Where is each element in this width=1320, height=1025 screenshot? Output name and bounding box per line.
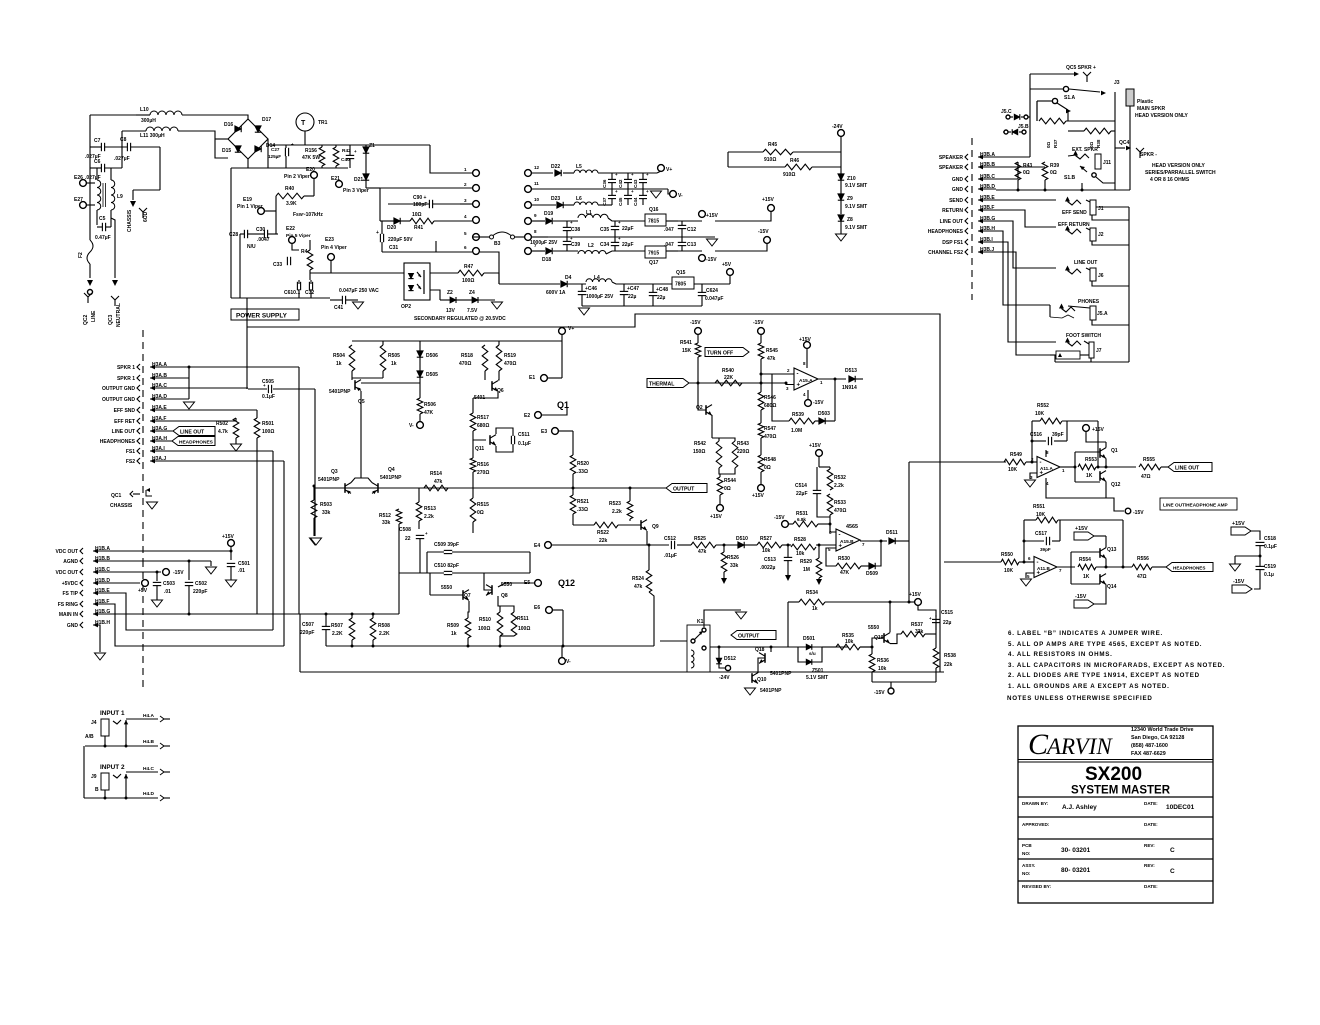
svg-text:1K: 1K: [1083, 574, 1090, 580]
svg-text:1k: 1k: [812, 606, 818, 612]
svg-text:C502: C502: [195, 581, 207, 587]
svg-text:ASSY.: ASSY.: [1022, 863, 1035, 868]
svg-text:100Ω: 100Ω: [518, 626, 530, 632]
svg-text:-15V: -15V: [753, 320, 764, 326]
svg-text:R543: R543: [737, 441, 749, 447]
svg-text:E20: E20: [306, 167, 315, 173]
svg-text:E3: E3: [541, 429, 547, 435]
svg-text:R519: R519: [504, 353, 516, 359]
svg-text:2.2k: 2.2k: [834, 483, 844, 489]
svg-text:22µF: 22µF: [796, 491, 808, 497]
svg-text:E23: E23: [325, 237, 334, 243]
svg-text:.0022µ: .0022µ: [760, 565, 776, 571]
svg-text:6OD: 6OD: [143, 211, 149, 222]
svg-text:NO:: NO:: [1022, 871, 1031, 876]
svg-text:R550: R550: [1001, 552, 1013, 558]
svg-text:+: +: [646, 189, 649, 194]
svg-text:C514: C514: [795, 483, 807, 489]
svg-text:Z4: Z4: [469, 290, 475, 296]
svg-text:FS TIP: FS TIP: [62, 591, 78, 597]
svg-text:THERMAL: THERMAL: [649, 381, 675, 387]
svg-text:1k: 1k: [336, 361, 342, 367]
svg-text:.33Ω: .33Ω: [577, 507, 588, 513]
svg-text:SPEAKER: SPEAKER: [939, 155, 964, 161]
svg-text:+5V: +5V: [722, 262, 732, 268]
svg-text:A11.B: A11.B: [1037, 566, 1050, 571]
svg-text:.01: .01: [238, 568, 245, 574]
svg-text:J5.C: J5.C: [1001, 109, 1012, 115]
svg-text:R539: R539: [792, 412, 804, 418]
svg-text:J11: J11: [1103, 160, 1111, 166]
svg-text:-15V: -15V: [690, 320, 701, 326]
svg-text:D510: D510: [736, 536, 748, 542]
svg-text:R548: R548: [764, 457, 776, 463]
svg-text:22k: 22k: [599, 538, 608, 544]
svg-text:12340 World Trade Drive: 12340 World Trade Drive: [1131, 727, 1194, 733]
svg-text:C513: C513: [764, 557, 776, 563]
svg-text:220pF: 220pF: [193, 589, 207, 595]
svg-text:A11.A: A11.A: [1040, 466, 1053, 471]
svg-text:D20: D20: [387, 225, 396, 231]
svg-text:D506: D506: [426, 353, 438, 359]
svg-text:Q12: Q12: [1111, 482, 1121, 488]
svg-text:C511: C511: [518, 432, 530, 438]
svg-text:0Ω: 0Ω: [1023, 170, 1030, 176]
svg-text:C: C: [1170, 868, 1175, 875]
svg-text:C34: C34: [600, 242, 609, 248]
svg-text:680Ω: 680Ω: [477, 423, 489, 429]
svg-text:C516: C516: [1030, 432, 1042, 438]
svg-text:+5V: +5V: [138, 588, 148, 594]
svg-text:R555: R555: [1143, 457, 1155, 463]
svg-text:H4.B: H4.B: [143, 739, 154, 745]
svg-text:+: +: [631, 189, 634, 194]
svg-text:Z1: Z1: [369, 143, 375, 149]
svg-text:R528: R528: [794, 537, 806, 543]
svg-text:-15V: -15V: [706, 257, 717, 263]
svg-text:R513: R513: [424, 506, 436, 512]
svg-text:+15V: +15V: [1075, 526, 1088, 532]
svg-text:CHANNEL FS2: CHANNEL FS2: [928, 250, 963, 256]
svg-text:E4: E4: [534, 543, 540, 549]
svg-text:SPEAKER: SPEAKER: [939, 165, 964, 171]
svg-text:J4: J4: [91, 720, 97, 726]
svg-text:+: +: [615, 189, 618, 194]
svg-text:C39: C39: [571, 242, 580, 248]
svg-text:8: 8: [534, 229, 537, 234]
svg-text:Q9: Q9: [652, 524, 659, 530]
svg-text:D503: D503: [818, 411, 830, 417]
svg-text:+15V: +15V: [752, 493, 764, 499]
svg-text:PCB: PCB: [1022, 843, 1032, 848]
svg-text:F2: F2: [78, 252, 84, 258]
svg-text:HEAD VERSION ONLY: HEAD VERSION ONLY: [1152, 163, 1206, 169]
svg-text:PHONES: PHONES: [1078, 299, 1100, 305]
svg-text:R518: R518: [461, 353, 473, 359]
svg-text:5401PNP: 5401PNP: [318, 477, 340, 483]
svg-text:Q3: Q3: [331, 469, 338, 475]
svg-text:C12: C12: [687, 227, 696, 233]
svg-text:R537: R537: [911, 622, 923, 628]
svg-text:C32: C32: [305, 290, 314, 296]
svg-text:22µF: 22µF: [622, 226, 634, 232]
svg-text:R534: R534: [806, 590, 818, 596]
svg-text:R523: R523: [609, 501, 621, 507]
svg-text:39pF: 39pF: [1040, 547, 1051, 552]
svg-text:0.1µF: 0.1µF: [1264, 544, 1277, 550]
svg-text:QC5 SPKR +: QC5 SPKR +: [1066, 65, 1096, 71]
svg-text:6. LABEL “B” INDICATES A JUMP: 6. LABEL “B” INDICATES A JUMPER WIRE.: [1008, 630, 1163, 637]
svg-text:1: 1: [464, 167, 467, 172]
svg-text:C40: C40: [341, 157, 350, 163]
svg-text:Q2: Q2: [696, 405, 703, 411]
svg-text:6: 6: [464, 245, 467, 250]
svg-text:L6: L6: [576, 196, 582, 202]
svg-text:47k: 47k: [634, 584, 643, 590]
svg-text:R547: R547: [764, 426, 776, 432]
svg-text:+: +: [570, 236, 573, 241]
svg-text:DRAWN BY:: DRAWN BY:: [1022, 801, 1049, 806]
svg-text:.01: .01: [164, 589, 171, 595]
svg-text:SPKR -: SPKR -: [1140, 152, 1157, 158]
svg-text:680Ω: 680Ω: [764, 403, 776, 409]
svg-text:R532: R532: [834, 475, 846, 481]
svg-text:-15V: -15V: [1233, 579, 1245, 585]
svg-text:C510 82pF: C510 82pF: [434, 563, 459, 569]
svg-text:R538: R538: [944, 653, 956, 659]
svg-text:R41: R41: [414, 225, 423, 231]
svg-text:+15V: +15V: [706, 213, 718, 219]
svg-text:R509: R509: [447, 623, 459, 629]
svg-text:QC2: QC2: [83, 315, 89, 326]
svg-text:Q4: Q4: [388, 467, 395, 473]
svg-text:R540: R540: [722, 368, 734, 374]
svg-text:+: +: [263, 383, 266, 388]
svg-text:R542: R542: [694, 441, 706, 447]
svg-text:HEADPHONES: HEADPHONES: [1173, 565, 1205, 570]
svg-text:.047: .047: [664, 227, 674, 233]
svg-text:-15V: -15V: [1133, 510, 1144, 516]
svg-text:R536: R536: [877, 658, 889, 664]
svg-text:+: +: [354, 149, 357, 154]
svg-text:J5.B: J5.B: [1018, 124, 1029, 130]
svg-text:5401PNP: 5401PNP: [760, 688, 782, 694]
svg-text:10DEC01: 10DEC01: [1166, 804, 1195, 811]
svg-text:L1: L1: [586, 210, 592, 216]
svg-text:47k: 47k: [767, 356, 776, 362]
svg-text:Pin 5 Viper: Pin 5 Viper: [286, 233, 311, 239]
svg-text:5. ALL OP AMPS ARE TYPE 4565,: 5. ALL OP AMPS ARE TYPE 4565, EXCEPT AS …: [1008, 641, 1202, 648]
svg-text:5.1V SMT: 5.1V SMT: [806, 675, 828, 681]
svg-text:D15: D15: [222, 148, 231, 154]
svg-text:R504: R504: [333, 353, 345, 359]
svg-text:+: +: [425, 531, 428, 536]
svg-text:R46: R46: [790, 158, 799, 164]
svg-text:L10: L10: [140, 107, 149, 113]
svg-text:REVISED BY:: REVISED BY:: [1022, 884, 1051, 889]
svg-text:100Ω: 100Ω: [478, 626, 490, 632]
svg-text:R530: R530: [838, 556, 850, 562]
svg-text:0Ω: 0Ω: [724, 486, 731, 492]
svg-text:0.1µF: 0.1µF: [518, 441, 531, 447]
svg-text:R515: R515: [477, 502, 489, 508]
svg-text:R37: R37: [1053, 139, 1058, 148]
svg-text:+15V: +15V: [799, 337, 811, 343]
svg-text:OUTPUT: OUTPUT: [738, 633, 760, 639]
svg-text:39pF: 39pF: [1052, 432, 1064, 438]
svg-text:C8: C8: [120, 137, 127, 143]
svg-text:D19: D19: [544, 211, 553, 217]
svg-text:C: C: [1170, 847, 1175, 854]
svg-text:J3: J3: [1114, 80, 1120, 86]
svg-text:INPUT 1: INPUT 1: [100, 710, 125, 717]
svg-text:B: B: [95, 787, 99, 793]
svg-text:0.1µF: 0.1µF: [262, 394, 275, 400]
svg-text:D23: D23: [551, 196, 560, 202]
svg-text:VDC OUT: VDC OUT: [56, 570, 79, 576]
svg-text:R554: R554: [1079, 557, 1091, 563]
svg-text:LINE OUT: LINE OUT: [1074, 260, 1097, 266]
svg-text:D21: D21: [354, 177, 363, 183]
svg-text:C610.1: C610.1: [284, 290, 300, 296]
svg-text:TR1: TR1: [318, 120, 328, 126]
svg-text:C503: C503: [163, 581, 175, 587]
svg-text:-: -: [839, 533, 841, 539]
svg-text:D505: D505: [426, 372, 438, 378]
svg-text:H4.C: H4.C: [143, 766, 154, 772]
svg-text:TURN OFF: TURN OFF: [707, 350, 733, 356]
svg-text:R501: R501: [262, 421, 274, 427]
svg-text:D22: D22: [551, 164, 560, 170]
svg-text:5550: 5550: [868, 625, 879, 631]
svg-text:47k: 47k: [434, 479, 443, 485]
svg-text:C27: C27: [271, 147, 280, 152]
svg-text:(858) 487-1600: (858) 487-1600: [1131, 743, 1168, 749]
svg-text:22: 22: [405, 536, 411, 542]
svg-text:C33: C33: [273, 262, 282, 268]
svg-text:47K 5W: 47K 5W: [302, 155, 320, 161]
svg-text:QC1: QC1: [111, 493, 122, 499]
svg-text:V-: V-: [678, 193, 683, 199]
svg-text:C13: C13: [687, 242, 696, 248]
svg-text:Q10: Q10: [757, 677, 767, 683]
svg-text:600V 1A: 600V 1A: [546, 290, 566, 296]
svg-text:-15V: -15V: [774, 515, 785, 521]
svg-text:D17: D17: [262, 117, 271, 123]
svg-text:7805: 7805: [675, 282, 686, 288]
svg-text:LINE OUT: LINE OUT: [180, 429, 205, 435]
svg-text:2: 2: [464, 182, 467, 187]
svg-text:S1.A: S1.A: [1064, 95, 1076, 101]
svg-text:San Diego, CA 92128: San Diego, CA 92128: [1131, 735, 1184, 741]
svg-text:E26: E26: [74, 175, 83, 181]
svg-text:E2: E2: [524, 413, 530, 419]
svg-text:MAIN SPKR: MAIN SPKR: [1137, 106, 1165, 112]
svg-text:L5: L5: [576, 164, 582, 170]
svg-text:C518: C518: [1264, 536, 1276, 542]
svg-text:0.047µF: 0.047µF: [705, 296, 723, 302]
svg-text:C515: C515: [941, 610, 953, 616]
svg-text:A/B: A/B: [85, 734, 94, 740]
svg-text:R549: R549: [1010, 452, 1022, 458]
svg-text:Q7: Q7: [464, 593, 471, 599]
svg-text:SERIES/PARRALLEL SWITCH: SERIES/PARRALLEL SWITCH: [1145, 170, 1216, 176]
svg-text:C: C: [1028, 728, 1049, 761]
svg-text:Plastic: Plastic: [1137, 99, 1153, 105]
svg-text:12: 12: [534, 165, 540, 170]
svg-text:R524: R524: [632, 576, 644, 582]
svg-text:0.047µF 250 VAC: 0.047µF 250 VAC: [339, 288, 379, 294]
svg-text:33k: 33k: [382, 520, 391, 526]
svg-text:R511: R511: [517, 616, 529, 622]
svg-text:E22: E22: [286, 226, 295, 232]
svg-text:R40: R40: [285, 186, 294, 192]
svg-text:OP2: OP2: [401, 304, 411, 310]
svg-text:J2: J2: [1098, 232, 1104, 238]
svg-text:J7: J7: [1096, 348, 1102, 354]
svg-text:C6: C6: [94, 159, 101, 165]
svg-text:SX200: SX200: [1085, 764, 1142, 785]
svg-text:R43: R43: [1023, 163, 1032, 169]
svg-text:+5VDC: +5VDC: [62, 581, 79, 587]
svg-text:A15.B: A15.B: [840, 539, 854, 545]
svg-text:33k: 33k: [915, 629, 924, 635]
svg-text:470Ω: 470Ω: [504, 361, 516, 367]
svg-text:NO:: NO:: [1022, 851, 1031, 856]
svg-text:R553: R553: [1085, 457, 1097, 463]
svg-text:RETURN: RETURN: [942, 208, 963, 214]
svg-text:R502: R502: [216, 421, 228, 427]
svg-text:Q1: Q1: [1111, 448, 1118, 454]
svg-text:S1.B: S1.B: [1064, 175, 1076, 181]
svg-text:-24V: -24V: [832, 124, 843, 130]
svg-text:1M: 1M: [803, 567, 810, 573]
svg-text:Pin 2 Viper: Pin 2 Viper: [284, 174, 310, 180]
svg-text:J9: J9: [91, 774, 97, 780]
svg-text:V-: V-: [566, 659, 571, 665]
svg-text:R541: R541: [680, 340, 692, 346]
svg-text:.0047: .0047: [257, 237, 270, 243]
svg-text:DSP FS1: DSP FS1: [942, 240, 963, 246]
svg-text:-15V: -15V: [173, 570, 184, 576]
svg-text:L11 300µH: L11 300µH: [140, 133, 165, 139]
svg-text:R551: R551: [1033, 504, 1045, 510]
svg-text:R521: R521: [577, 499, 589, 505]
svg-text:A15.A: A15.A: [799, 378, 813, 384]
svg-text:C36: C36: [602, 179, 607, 188]
svg-text:GND: GND: [952, 177, 964, 183]
svg-text:R506: R506: [424, 402, 436, 408]
svg-text:R505: R505: [388, 353, 400, 359]
svg-text:+: +: [1040, 470, 1044, 476]
svg-text:REV:: REV:: [1144, 843, 1155, 848]
svg-text:L2: L2: [588, 243, 594, 249]
svg-text:V-: V-: [409, 423, 414, 429]
svg-text:C512: C512: [664, 536, 676, 542]
svg-text:A.J. Ashley: A.J. Ashley: [1062, 804, 1097, 811]
svg-text:47Ω: 47Ω: [1137, 574, 1147, 580]
svg-text:+15V: +15V: [809, 443, 821, 449]
svg-text:AGND: AGND: [63, 559, 78, 565]
svg-text:CHASSIS: CHASSIS: [110, 503, 133, 509]
svg-text:220Ω: 220Ω: [737, 449, 749, 455]
svg-text:NOTES UNLESS OTHERWISE SPECIFI: NOTES UNLESS OTHERWISE SPECIFIED: [1007, 695, 1153, 702]
svg-text:470Ω: 470Ω: [764, 434, 776, 440]
svg-text:D513: D513: [845, 368, 857, 374]
svg-text:LINE OUT: LINE OUT: [112, 429, 135, 435]
svg-text:SPKR 1: SPKR 1: [117, 376, 135, 382]
svg-text:D511: D511: [886, 530, 898, 536]
svg-text:30- 03201: 30- 03201: [1061, 847, 1091, 854]
svg-text:LINE OUT: LINE OUT: [1175, 465, 1200, 471]
svg-text:L9: L9: [117, 194, 123, 200]
svg-text:T: T: [301, 120, 306, 127]
svg-text:Pin 3 Viper: Pin 3 Viper: [343, 188, 369, 194]
svg-text:C42: C42: [618, 179, 623, 188]
svg-text:C7: C7: [94, 138, 101, 144]
svg-text:2.2K: 2.2K: [379, 631, 390, 637]
svg-text:7915: 7915: [648, 251, 659, 257]
svg-text:OUTPUT GND: OUTPUT GND: [102, 386, 135, 392]
svg-text:13V: 13V: [446, 308, 456, 314]
svg-text:1000µF 25V: 1000µF 25V: [530, 240, 558, 246]
svg-text:4: 4: [464, 214, 467, 219]
svg-text:R525: R525: [694, 536, 706, 542]
svg-text:DATE:: DATE:: [1144, 801, 1158, 806]
svg-text:Z10: Z10: [847, 176, 856, 182]
svg-text:LINE OUT/HEADPHONE AMP: LINE OUT/HEADPHONE AMP: [1163, 503, 1228, 508]
svg-text:EFF RET: EFF RET: [114, 419, 135, 425]
svg-text:L4: L4: [594, 275, 600, 281]
svg-text:C517: C517: [1035, 531, 1047, 537]
svg-text:C31: C31: [389, 245, 398, 251]
svg-text:C28: C28: [229, 232, 238, 238]
svg-text:10k: 10k: [762, 548, 771, 554]
svg-text:+: +: [618, 236, 621, 241]
svg-text:+: +: [615, 172, 618, 177]
svg-text:Z501: Z501: [812, 668, 824, 674]
svg-text:+: +: [631, 172, 634, 177]
svg-text:22µ: 22µ: [657, 295, 666, 301]
svg-text:10: 10: [534, 197, 540, 202]
svg-text:2.2k: 2.2k: [612, 509, 622, 515]
svg-text:C508: C508: [399, 527, 411, 533]
svg-text:-15V: -15V: [758, 229, 769, 235]
svg-text:9.1V SMT: 9.1V SMT: [845, 204, 867, 210]
svg-text:47K: 47K: [424, 410, 434, 416]
svg-text:0.47µF: 0.47µF: [95, 235, 111, 241]
svg-text:FOOT SWITCH: FOOT SWITCH: [1066, 333, 1101, 339]
svg-text:J5.A: J5.A: [1097, 311, 1108, 317]
svg-text:R529: R529: [800, 559, 812, 565]
svg-text:R156: R156: [305, 148, 317, 154]
svg-text:E21: E21: [331, 176, 340, 182]
svg-text:10K: 10K: [1008, 467, 1018, 473]
svg-text:R39: R39: [1050, 163, 1059, 169]
svg-text:R545: R545: [766, 348, 778, 354]
svg-text:EFF SEND: EFF SEND: [1062, 210, 1087, 216]
svg-text:10k: 10k: [878, 666, 887, 672]
svg-text:11: 11: [534, 181, 539, 186]
svg-text:+: +: [376, 230, 379, 236]
svg-text:H4.D: H4.D: [143, 791, 154, 797]
svg-text:+: +: [291, 142, 294, 147]
svg-text:HEADPHONES: HEADPHONES: [100, 439, 136, 445]
svg-text:3. ALL CAPACITORS IN MICROFA: 3. ALL CAPACITORS IN MICROFARADS, EXCEPT…: [1008, 662, 1225, 669]
svg-text:H4.A: H4.A: [143, 713, 154, 719]
svg-text:C5: C5: [99, 216, 106, 222]
svg-text:+15V: +15V: [1092, 427, 1104, 433]
